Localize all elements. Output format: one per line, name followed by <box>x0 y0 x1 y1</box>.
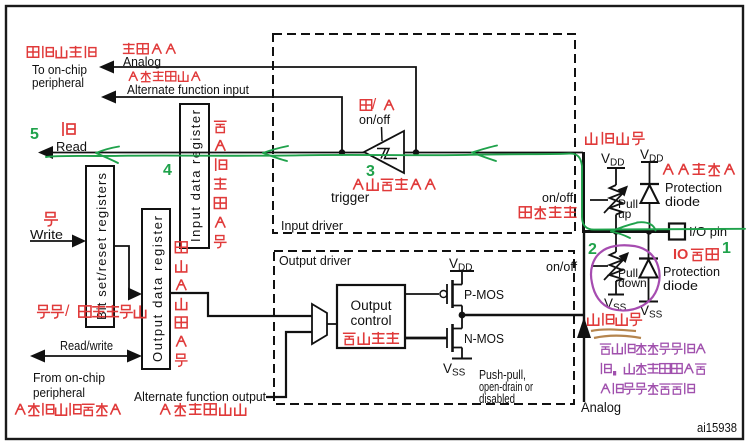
pull-down resistor R pull-down <box>591 232 625 295</box>
wire I/O pin line <box>582 230 669 233</box>
svg-text:Read/write: Read/write <box>60 338 113 353</box>
svg-text:diode: diode <box>665 194 700 209</box>
label 下拉电阻 (pull-down resistor) <box>588 313 642 326</box>
wire main line over IDR <box>180 152 209 154</box>
annotation brown underline 1 <box>591 329 636 331</box>
wire bit-set to output data register <box>114 246 132 294</box>
I/O pin square <box>669 224 685 240</box>
svg-text:peripheral: peripheral <box>32 75 84 90</box>
node junction analog input <box>413 149 419 155</box>
green arrowhead at read <box>96 147 119 164</box>
pull-up resistor R pull-up <box>590 168 625 231</box>
svg-text:on/off: on/off <box>359 113 391 127</box>
label 来自片上其他外设 (from on-chip peripheral) <box>15 403 120 416</box>
arrowhead alternate function input <box>101 91 116 104</box>
arrowhead analog input <box>99 61 114 74</box>
svg-text:N-MOS: N-MOS <box>464 331 504 346</box>
svg-text:I/O pin: I/O pin <box>689 225 727 239</box>
svg-text:Read: Read <box>56 139 87 154</box>
wire output stage to pin <box>462 314 583 317</box>
svg-text:ai15938: ai15938 <box>697 421 737 435</box>
wire main input line <box>44 152 583 154</box>
svg-text:/: / <box>65 303 70 320</box>
svg-text:Output: Output <box>351 298 392 313</box>
svg-text:Analog: Analog <box>123 54 161 69</box>
svg-text:2: 2 <box>588 241 597 258</box>
svg-text:Protection: Protection <box>663 264 720 279</box>
output control box U: Output control <box>337 285 405 348</box>
label 写 (write) <box>44 213 58 227</box>
node protection-diode to pin-line junction <box>646 228 652 234</box>
arrowhead analog vertical (up) <box>577 317 591 338</box>
svg-text:3: 3 <box>366 163 375 180</box>
wire analog vertical <box>583 233 585 402</box>
node output junction <box>459 312 466 319</box>
wire write arrow <box>30 240 74 242</box>
svg-text:up: up <box>618 207 632 221</box>
register: Bit set/reset registers <box>86 166 114 327</box>
output driver dashed box <box>274 251 574 404</box>
svg-text:diode: diode <box>663 278 698 293</box>
arrowhead write <box>72 235 86 248</box>
svg-text:Alternate function input: Alternate function input <box>127 82 249 97</box>
register: Output data register <box>142 209 170 369</box>
label 输出控制 (output control) <box>343 332 399 345</box>
svg-text:From on-chip: From on-chip <box>33 370 105 385</box>
wire on/off to trigger <box>381 127 384 141</box>
label 复用功能输入 (AF input) <box>129 71 200 82</box>
note purple line2 时，下拉电阻会将输 <box>601 363 706 376</box>
svg-text:trigger: trigger <box>331 190 370 205</box>
wire analog input <box>113 67 416 152</box>
svg-text:on/off: on/off <box>542 191 574 205</box>
node pull-up to pin-line junction <box>613 228 619 234</box>
wire alternate function output to mux <box>266 332 312 397</box>
svg-text:Input driver: Input driver <box>281 218 344 233</box>
label 开关控制 (switch control) <box>519 206 576 219</box>
note purple line1 当外部没有信号输入 <box>600 343 705 354</box>
label 到片上外设 (to on-chip peripheral) <box>27 46 96 58</box>
annotation purple loop around pull-down resistor <box>591 245 660 310</box>
svg-text:Write: Write <box>30 227 63 242</box>
schmitt trigger (TTL) <box>364 131 404 173</box>
svg-text:Analog: Analog <box>581 400 621 415</box>
svg-text:1: 1 <box>722 240 731 257</box>
arrowhead read/write left <box>30 350 45 363</box>
svg-text:Output driver: Output driver <box>279 253 352 268</box>
input driver dashed box <box>273 34 575 233</box>
svg-text:down: down <box>618 276 647 290</box>
arrowhead read/write right <box>127 350 142 363</box>
transistor P-MOS <box>405 271 474 315</box>
svg-text:Alternate function output: Alternate function output <box>134 389 266 404</box>
annotation brown underline 2 <box>594 336 641 338</box>
arrowhead read line <box>38 146 53 159</box>
svg-text:Bit set/reset registers: Bit set/reset registers <box>94 173 109 321</box>
wire alternate function input <box>115 97 342 152</box>
node junction AF input <box>339 149 345 155</box>
note purple line3 入信号钳在低电平 <box>601 383 694 394</box>
wire mux to output control <box>327 323 337 325</box>
arrowhead bit-set to ODR <box>128 288 142 301</box>
label 置位/复位寄存器 (bit set/reset registers) <box>37 303 146 320</box>
svg-text:IO: IO <box>673 247 688 263</box>
svg-text:5: 5 <box>30 126 39 143</box>
protection diode top D1 <box>640 162 659 231</box>
svg-text:control: control <box>351 313 392 328</box>
svg-text:disabled: disabled <box>479 392 515 406</box>
svg-text:Output data register: Output data register <box>150 215 165 362</box>
svg-text:Protection: Protection <box>665 180 722 195</box>
label 模拟输入 (analog input) <box>123 43 176 54</box>
green arrowhead mid-left <box>263 146 288 161</box>
label 保护二极管 (protection diode) <box>663 163 734 176</box>
svg-text:4: 4 <box>163 162 172 179</box>
label 数据输出寄存器 (output data register) <box>175 242 188 367</box>
transistor N-MOS <box>405 315 472 359</box>
wire read/write double arrow <box>40 355 132 357</box>
svg-text:on/off: on/off <box>546 260 578 274</box>
green arrowhead at pin <box>611 222 656 238</box>
wire green signal path trace <box>46 146 745 239</box>
green arrowhead mid-right <box>472 146 497 162</box>
label 上拉电阻 (pull-up resistor) <box>586 132 645 145</box>
svg-text:peripheral: peripheral <box>33 385 85 400</box>
wire input line to pin (corner) <box>582 152 585 231</box>
label 输入数据寄存器 (input data register) <box>214 121 227 248</box>
label IO端口 (IO port) <box>673 247 718 263</box>
svg-text:P-MOS: P-MOS <box>464 287 504 302</box>
mux trapezoid <box>312 304 327 344</box>
label 施密特触发器 (schmitt trigger) <box>353 178 435 191</box>
label 读 (read) <box>63 122 75 136</box>
protection diode bottom D2 <box>639 232 658 302</box>
wire ODR to mux <box>170 293 312 316</box>
register: Input data register <box>180 104 209 248</box>
label 开/关 (on/off) <box>360 96 394 113</box>
label 复用功能输出 (AF output) <box>160 403 245 416</box>
